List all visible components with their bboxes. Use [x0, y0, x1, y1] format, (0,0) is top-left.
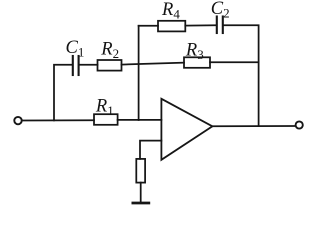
- wire C2 to right corner: [224, 25, 259, 126]
- wire R3 to right vertical: [210, 61, 259, 63]
- output terminal: [296, 121, 303, 128]
- resistor R2: [98, 60, 122, 71]
- resistor R3: [184, 57, 210, 68]
- wire C1 to R2: [80, 64, 98, 66]
- ground: [133, 202, 149, 205]
- wire left branch vertical: [54, 65, 72, 121]
- wire op-amp non-inverting input: [140, 141, 161, 159]
- capacitor C1: [73, 56, 79, 75]
- resistor R1: [94, 114, 118, 125]
- wire resistor to ground: [140, 183, 142, 202]
- wire top row left: [139, 25, 158, 27]
- resistor R4: [158, 21, 185, 32]
- wire R2 to R3: [122, 63, 185, 65]
- wire R4 to C2: [185, 24, 216, 26]
- capacitor C2: [217, 17, 223, 34]
- resistor Rg (grounding resistor): [136, 159, 145, 183]
- wire R1 to op-amp inverting input: [118, 119, 162, 121]
- op-amp U1: [161, 99, 212, 160]
- input terminal: [14, 117, 21, 124]
- wire vertical node A: [138, 26, 140, 120]
- wire op-amp output: [212, 125, 295, 127]
- wire input to R1: [22, 119, 94, 121]
